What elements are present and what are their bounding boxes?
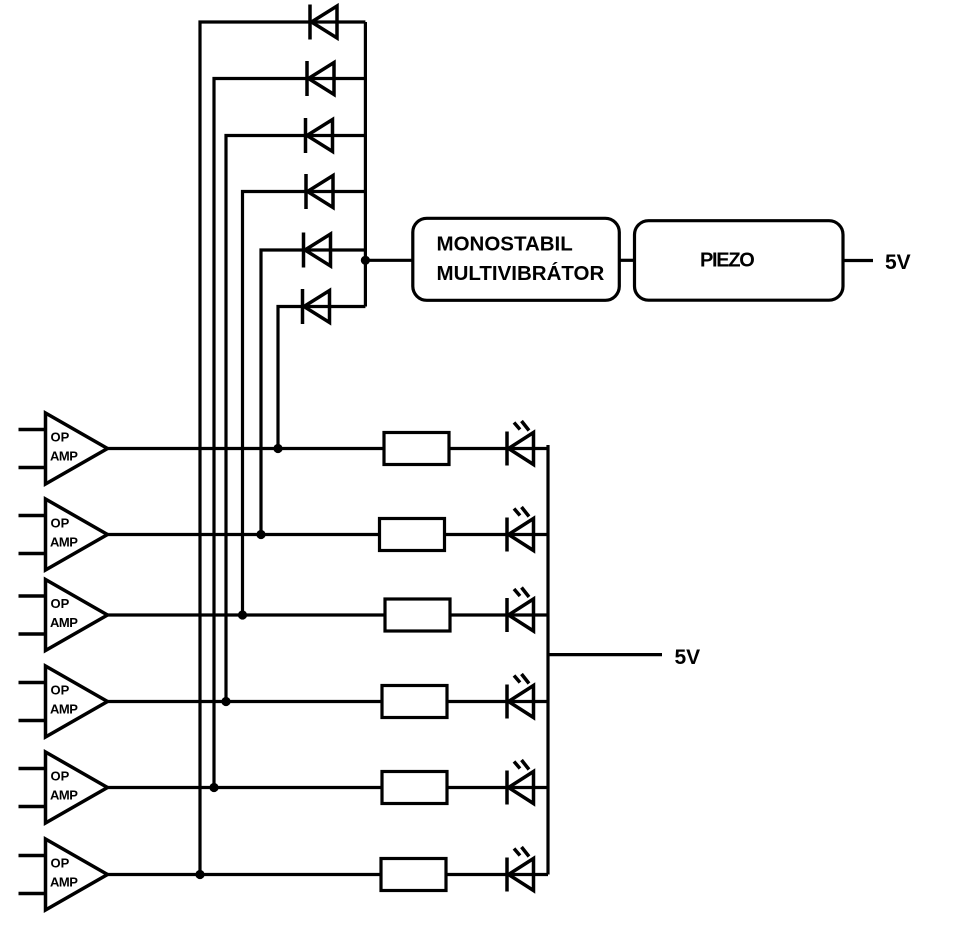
svg-text:5V: 5V xyxy=(885,251,911,274)
junction node row 3 xyxy=(238,610,247,619)
op-amp U5 xyxy=(19,752,108,823)
op-amp U4 xyxy=(19,666,108,737)
wire: op-amp U2 output row xyxy=(108,533,549,536)
svg-text:MONOSTABIL: MONOSTABIL xyxy=(437,233,573,256)
wire: bus to 5V supply branch xyxy=(548,653,662,656)
junction node row 5 xyxy=(209,783,218,792)
svg-text:OP: OP xyxy=(51,769,70,784)
resistor R4 xyxy=(382,686,447,718)
diode D4 xyxy=(306,174,333,209)
block U7 MONOSTABIL MULTIVIBRATOR xyxy=(413,218,620,300)
resistor R5 xyxy=(382,772,447,804)
wire: piezo to 5V supply xyxy=(844,259,873,262)
LED D9 xyxy=(507,588,534,633)
resistor R3 xyxy=(385,599,450,631)
wire: op-amp U4 output row xyxy=(108,700,549,703)
op-amp U1 xyxy=(19,413,108,484)
junction node row 4 xyxy=(221,697,230,706)
wire: diode section right bus xyxy=(364,22,367,307)
diode D5 xyxy=(304,233,331,268)
op-amp U6 xyxy=(19,839,108,910)
svg-text:AMP: AMP xyxy=(50,615,78,630)
wire: LED section right bus xyxy=(546,445,549,875)
LED D12 xyxy=(507,847,534,892)
op-amp U3 xyxy=(19,580,108,651)
wire net D5: bus to vertical x=261 down to opamp row 2 xyxy=(261,250,365,535)
svg-text:AMP: AMP xyxy=(50,874,78,889)
svg-text:AMP: AMP xyxy=(50,787,78,802)
svg-text:OP: OP xyxy=(51,596,70,611)
LED D8 xyxy=(507,507,534,552)
wire net D1: bus to vertical x=200 down to opamp row 6 xyxy=(200,22,365,875)
wire net D4: bus to vertical x=242.5 down to opamp row 3 xyxy=(243,192,366,616)
LED D10 xyxy=(507,674,534,719)
wire: op-amp U5 output row xyxy=(108,786,549,789)
resistor R6 xyxy=(381,859,446,891)
wire: diode bus to monostable multivibrator input xyxy=(365,259,414,262)
junction node on diode bus xyxy=(361,256,370,265)
svg-text:AMP: AMP xyxy=(50,701,78,716)
wire net D3: bus to vertical x=226 down to opamp row 4 xyxy=(226,136,365,702)
resistor R1 xyxy=(384,433,449,465)
LED D11 xyxy=(507,760,534,805)
wire: monostable output to piezo xyxy=(620,259,634,262)
svg-text:AMP: AMP xyxy=(50,534,78,549)
svg-text:MULTIVIBRÁTOR: MULTIVIBRÁTOR xyxy=(437,262,605,285)
LED D7 xyxy=(507,421,534,466)
wire net D6: bus to vertical x=278 down to opamp row 1 xyxy=(278,307,365,449)
svg-text:OP: OP xyxy=(51,856,70,871)
svg-text:OP: OP xyxy=(51,430,70,445)
junction node row 1 xyxy=(273,444,282,453)
svg-text:5V: 5V xyxy=(675,646,701,669)
svg-text:PIEZO: PIEZO xyxy=(700,250,754,272)
diode D3 xyxy=(306,118,333,153)
wire net D2: bus to vertical x=214 down to opamp row 5 xyxy=(214,79,365,788)
resistor R2 xyxy=(380,519,445,551)
wire: op-amp U1 output row xyxy=(108,447,549,450)
diode D2 xyxy=(307,61,334,96)
wire: op-amp U6 output row xyxy=(108,873,549,876)
svg-text:OP: OP xyxy=(51,683,70,698)
diode D1 xyxy=(310,5,337,40)
wire: op-amp U3 output row xyxy=(108,613,549,616)
block LS1 PIEZO xyxy=(635,221,844,301)
svg-text:AMP: AMP xyxy=(50,448,78,463)
svg-text:OP: OP xyxy=(51,516,70,531)
diode D6 xyxy=(303,289,330,324)
junction node row 6 xyxy=(195,870,204,879)
op-amp U2 xyxy=(19,499,108,570)
junction node row 2 xyxy=(256,530,265,539)
